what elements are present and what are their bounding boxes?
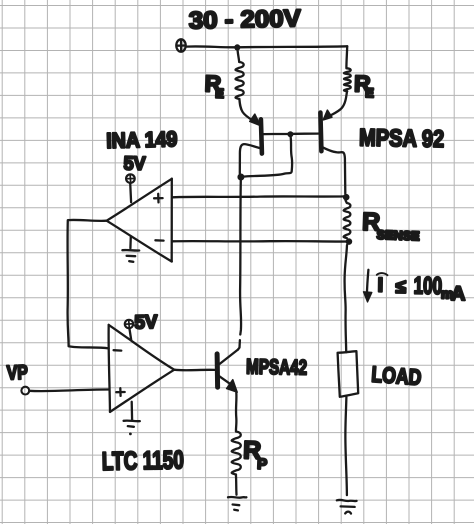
- ground (bottom under RP): [228, 497, 246, 510]
- svg-text:VP: VP: [6, 362, 28, 385]
- svg-text:LTC 1150: LTC 1150: [102, 446, 185, 476]
- wire VP to U2 plus input: [29, 389, 108, 391]
- svg-text:MPSA42: MPSA42: [246, 356, 307, 380]
- load box: [338, 351, 359, 397]
- label RE (left): [204, 70, 225, 101]
- wire LOAD to ground: [345, 397, 347, 495]
- wire 5V to U1 top edge: [129, 183, 132, 202]
- wire mirror output to Q3 collector: [238, 180, 241, 350]
- U1 minus input mark: [155, 239, 163, 242]
- svg-text:E: E: [215, 86, 225, 101]
- op-amp U1 INA149 (points left): [107, 179, 172, 262]
- resistor RE (left): [236, 50, 256, 122]
- svg-text:LOAD: LOAD: [371, 362, 423, 390]
- wire top rail from terminal to right corner: [186, 46, 347, 47]
- wire Q3 emitter to RP: [235, 393, 238, 432]
- wire RP to ground: [235, 475, 238, 495]
- current direction arrow: [364, 270, 372, 302]
- wire base-to-collector tie: [243, 137, 293, 177]
- wire U1 output feedback to U2 minus input: [68, 220, 109, 349]
- svg-text:5V: 5V: [134, 312, 158, 333]
- terminal T1 (30-200V supply plus terminal): [176, 39, 185, 51]
- terminal 5V circle (U1): [126, 174, 135, 183]
- junction node on top rail: [234, 44, 240, 50]
- U1 plus input mark: [154, 194, 163, 203]
- U2 minus input mark: [114, 349, 122, 352]
- junction node on base wire: [287, 131, 293, 137]
- svg-text:SENSE: SENSE: [376, 228, 419, 243]
- svg-text:P: P: [257, 456, 268, 473]
- ground (bottom right under load): [337, 500, 357, 514]
- resistor RSENSE: [344, 200, 351, 238]
- terminal 5V circle (U2): [125, 320, 133, 328]
- svg-text:INA 149: INA 149: [106, 127, 178, 153]
- label RSENSE: [361, 208, 420, 244]
- resistor RE (right): [328, 46, 351, 117]
- resistor RP: [232, 432, 241, 475]
- label I <= 100mA: [376, 272, 465, 305]
- op-amp U2 LTC1150 (points right): [109, 325, 175, 412]
- terminal VP: [21, 387, 29, 395]
- svg-text:E: E: [365, 85, 374, 100]
- wire base Q1 to base Q2: [263, 132, 320, 135]
- svg-text:100: 100: [413, 272, 442, 299]
- wire U1 + input to Rsense top: [173, 195, 345, 198]
- wire Rsense bottom to LOAD: [345, 245, 347, 352]
- svg-text:I: I: [377, 274, 383, 296]
- junction node mirror output: [237, 174, 244, 181]
- svg-text:5V: 5V: [123, 154, 146, 175]
- label RP: [242, 436, 268, 473]
- U2 plus input mark: [116, 388, 124, 396]
- transistor Q2 (right PNP MPSA92): [320, 110, 345, 193]
- svg-text:30 - 200V: 30 - 200V: [189, 5, 302, 34]
- ground (U1): [122, 236, 139, 261]
- svg-text:A: A: [451, 283, 466, 305]
- junction node Rsense bottom: [346, 238, 353, 245]
- wire U2 output to Q3 base: [174, 369, 215, 372]
- wire U1 - input to Rsense bottom: [173, 240, 349, 243]
- transistor Q3 MPSA42 (NPN): [217, 350, 238, 392]
- transistor Q1 (left PNP of current mirror): [240, 114, 262, 173]
- svg-text:≤: ≤: [395, 277, 406, 298]
- wire 5V to U2 top edge: [129, 328, 131, 340]
- label RE (right): [354, 70, 375, 100]
- svg-text:MPSA 92: MPSA 92: [359, 125, 444, 153]
- ground (U2): [124, 402, 140, 436]
- junction node Rsense top: [343, 194, 350, 201]
